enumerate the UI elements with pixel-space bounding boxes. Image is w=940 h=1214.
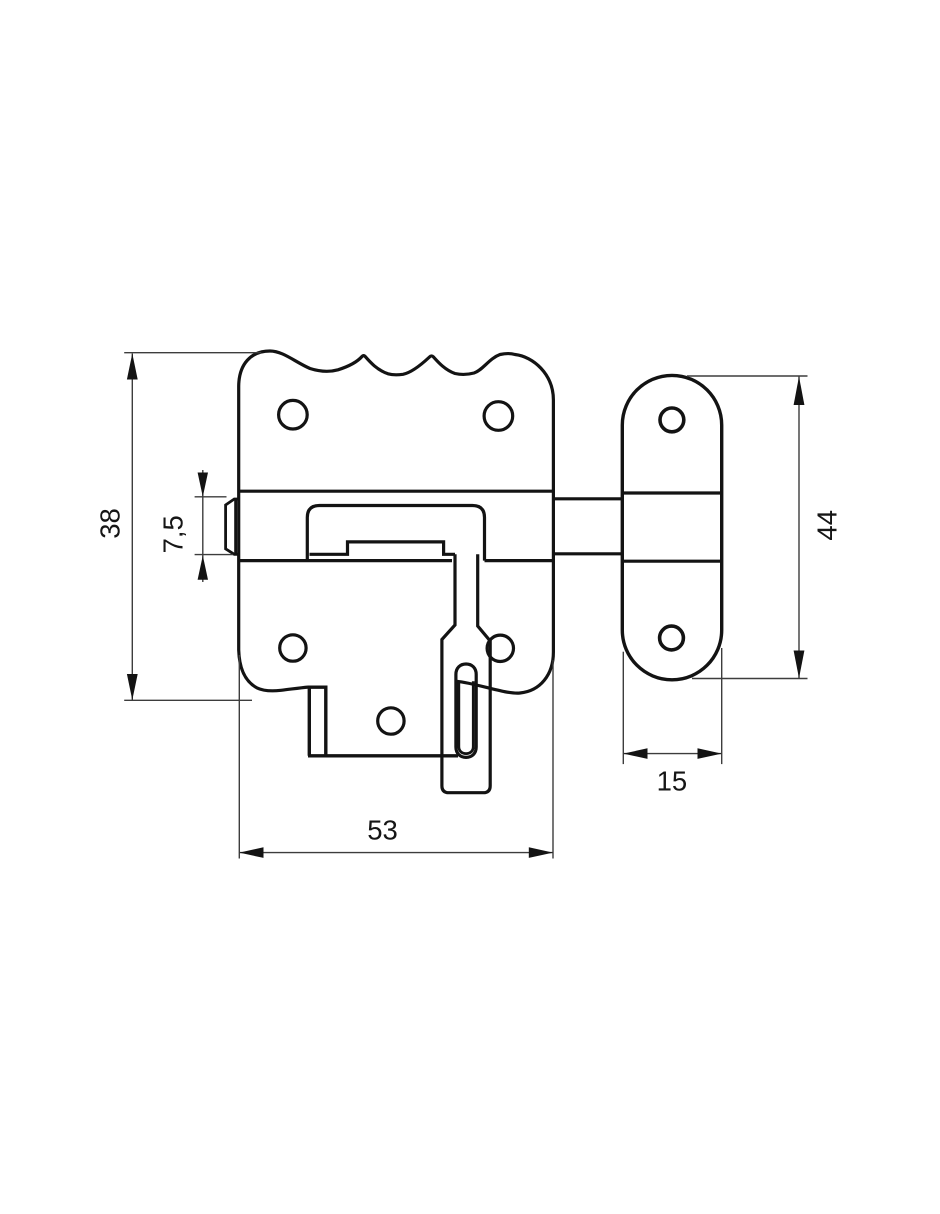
plate outline [239,351,554,693]
bolt rod top edge [553,497,622,500]
dim 44 extension top [687,375,808,377]
screw hole top-left [279,400,308,429]
tab slot [456,664,476,757]
dim 38 extension bottom [124,699,252,701]
bolt knob inner step [310,542,456,554]
inner strip seen through slot [459,681,474,753]
svg-text:7,5: 7,5 [158,515,189,553]
plate left lower edge [239,386,308,691]
arrow 44 top [794,377,805,406]
screw hole bottom-right [487,635,513,661]
svg-text:15: 15 [657,766,688,797]
screw hole bottom-left [280,635,306,661]
arrow 15 right [698,748,722,759]
keeper band bottom line [622,560,721,563]
guide strip left [309,687,326,756]
dim 7,5 extension bottom [195,554,233,556]
arrow 53 right [529,847,553,858]
dim 15 extension left [622,652,624,764]
dim 44 extension bottom [692,678,808,680]
dim 7,5 line [202,470,204,582]
dim 53 extension right [552,660,554,859]
dim 44 line [798,377,800,679]
keeper screw hole bottom [660,626,684,650]
arrow 53 left [239,847,263,858]
arrow 7,5 bottom [198,556,208,580]
svg-text:38: 38 [94,508,125,539]
dim 38 extension top [124,352,261,354]
dim 53 extension left [238,655,240,859]
arrow 44 bottom [794,651,805,679]
bolt rod bottom edge [553,552,622,555]
dim 53 line [239,852,553,854]
guide bottom bar [308,754,458,757]
bolt end protrusion [226,499,239,554]
svg-text:44: 44 [812,510,843,541]
dim 38 line [131,354,133,701]
keeper plate outline [622,375,721,679]
arrow 15 left [623,748,647,759]
locking tab bar [442,554,490,792]
dim 15 extension right [721,648,723,764]
dim 7,5 extension top [195,496,227,498]
arrow 38 bottom [127,674,138,700]
bolt band top line [239,490,554,493]
keeper band top line [622,491,721,494]
svg-text:53: 53 [367,815,398,846]
arrow 7,5 top [198,473,208,497]
bolt knob outline [307,506,484,561]
bolt band bottom line [239,559,554,562]
arrow 38 top [127,354,138,380]
screw hole top-right [484,402,513,431]
screw hole center [378,708,404,734]
keeper screw hole top [660,408,684,432]
bolt end inner line [234,499,237,554]
dim 15 line [623,753,721,755]
